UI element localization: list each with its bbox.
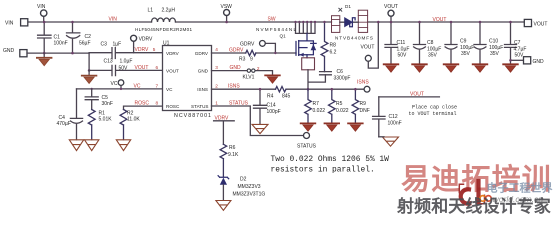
svg-text:ISNS: ISNS: [357, 79, 369, 85]
node dot VSW: [225, 21, 228, 24]
capacitor C8 (polarized): [414, 22, 426, 64]
svg-text:1µF: 1µF: [113, 41, 122, 47]
capacitor C3: [89, 48, 162, 59]
node dots comb: [294, 21, 296, 23]
testpoint ISNS: [364, 86, 370, 92]
resistor R6: [220, 144, 227, 177]
resistor R1: [88, 110, 95, 140]
svg-text:Two 0.022 Ohms 1206 5% 1W: Two 0.022 Ohms 1206 5% 1W: [271, 155, 390, 164]
capacitor C10 (polarized): [474, 22, 486, 64]
wire Q1 source to sense node: [308, 70, 325, 89]
svg-text:30nF: 30nF: [102, 101, 113, 107]
svg-text:D1: D1: [345, 4, 351, 9]
svg-text:ISNS: ISNS: [197, 87, 208, 92]
svg-text:Place cap close: Place cap close: [412, 105, 457, 111]
svg-text:STATUS: STATUS: [297, 143, 317, 149]
capacitor C14: [254, 89, 267, 124]
svg-text:U1: U1: [163, 41, 170, 47]
svg-text:C1: C1: [54, 35, 61, 41]
svg-text:C12: C12: [389, 114, 398, 120]
svg-text:1.0µF: 1.0µF: [120, 59, 133, 65]
wire GND rail corner down: [88, 53, 90, 70]
svg-text:VOUT: VOUT: [166, 69, 179, 74]
testpoint VIN: [43, 16, 45, 22]
svg-text:GND: GND: [533, 59, 545, 65]
svg-text:VOUT: VOUT: [410, 92, 424, 98]
node dot C11: [390, 21, 393, 24]
svg-text:ISNS: ISNS: [228, 84, 240, 90]
svg-text:100nF: 100nF: [388, 121, 402, 127]
wire VIN rail left: [28, 21, 152, 23]
svg-text:11.0K: 11.0K: [127, 117, 140, 123]
wire GND rail: [27, 52, 89, 54]
wire STATUS row pin1: [212, 106, 304, 136]
svg-text:3300pF: 3300pF: [334, 75, 351, 81]
svg-text:NCV887001: NCV887001: [174, 113, 211, 119]
ground under C12 (hollow): [383, 137, 399, 146]
wire VIN rail mid (SW net): [176, 21, 332, 23]
svg-text:0.022: 0.022: [313, 108, 326, 114]
capacitor C7: [505, 22, 517, 64]
svg-text:8: 8: [156, 101, 159, 106]
svg-text:VOUT: VOUT: [534, 21, 548, 27]
net label VOUT stub (red) with C12: [379, 96, 440, 98]
ground under C7 (filled): [503, 63, 518, 65]
svg-text:GND: GND: [230, 65, 242, 71]
svg-text:35V: 35V: [461, 51, 471, 57]
wire GDRV row pin4: [212, 52, 297, 54]
ground under R7 (filled): [301, 122, 316, 124]
svg-text:VOUT: VOUT: [384, 4, 398, 10]
svg-text:GND: GND: [3, 48, 15, 54]
svg-text:R4: R4: [267, 93, 274, 99]
svg-text:VC: VC: [166, 87, 173, 92]
svg-text:C8: C8: [427, 40, 434, 46]
svg-text:NVMF5844NL: NVMF5844NL: [256, 27, 296, 32]
svg-text:to VOUT terminal: to VOUT terminal: [409, 111, 457, 117]
svg-text:VDRV: VDRV: [215, 115, 229, 121]
wire GND row pin3: [212, 71, 273, 76]
ground under C3/C13 rail: [88, 70, 90, 75]
port VOUT: [524, 19, 531, 26]
testpoint VSW: [226, 15, 228, 22]
svg-text:470µF: 470µF: [57, 121, 71, 127]
svg-text:GND: GND: [198, 69, 209, 74]
svg-text:VOUT: VOUT: [433, 17, 447, 23]
svg-text:100µF: 100µF: [460, 45, 474, 51]
node dot R9: [354, 88, 357, 91]
svg-text:STATUS: STATUS: [229, 101, 249, 107]
svg-text:电子工程世界: 电子工程世界: [487, 181, 553, 195]
node dot GDRV tap: [274, 52, 276, 54]
ground under C14 (hollow): [252, 124, 268, 133]
svg-text:6: 6: [156, 65, 159, 70]
svg-text:100µF: 100µF: [489, 45, 503, 51]
svg-text:35V: 35V: [490, 51, 500, 57]
capacitor C1: [38, 22, 51, 53]
svg-text:VIN: VIN: [5, 20, 14, 26]
node dot Q1 source / R7: [307, 88, 310, 91]
svg-text:VOUT: VOUT: [135, 65, 149, 71]
node dot VOUT riser: [377, 21, 380, 24]
svg-text:C2: C2: [85, 34, 92, 40]
svg-text:ROSC: ROSC: [166, 104, 180, 109]
svg-text:56µF: 56µF: [79, 41, 91, 47]
node dot C7 top: [509, 21, 512, 24]
svg-text:1.0µF: 1.0µF: [397, 46, 410, 52]
svg-text:845: 845: [282, 93, 291, 99]
svg-text:VIN: VIN: [37, 4, 46, 10]
capacitor C2 (polarized): [67, 22, 80, 53]
wire VOUT rail right: [368, 21, 524, 23]
svg-text:C10: C10: [489, 39, 498, 45]
ground under R9 (filled): [348, 122, 363, 124]
svg-text:NTVB440MFS: NTVB440MFS: [335, 36, 373, 41]
connector KLV1: [247, 69, 250, 72]
svg-text:7: 7: [156, 83, 159, 88]
resistor R5: [328, 89, 335, 123]
svg-text:VDRV: VDRV: [139, 36, 153, 42]
ground under R5 (filled): [325, 122, 340, 124]
ground KLV1 (filled): [265, 74, 280, 76]
ground under C11 (filled): [384, 63, 399, 65]
resistor R8 (snubber): [321, 22, 328, 72]
node dot C13 gnd tee: [88, 69, 91, 72]
svg-text:射频和天线设计专家: 射频和天线设计专家: [396, 196, 551, 216]
svg-text:GDRV: GDRV: [240, 42, 255, 48]
svg-text:C14: C14: [267, 103, 276, 109]
svg-text:VDRV: VDRV: [135, 47, 149, 53]
svg-text:6.2: 6.2: [330, 50, 337, 56]
svg-text:C11: C11: [397, 40, 406, 46]
testpoint STATUS: [304, 133, 310, 139]
ground under D2 (hollow): [216, 201, 231, 211]
ground under C8 (filled): [412, 63, 427, 65]
diode D2 zener MM3Z3V3: [218, 176, 229, 179]
watermark www.eeworld.com.cn: [480, 196, 486, 202]
svg-text:C6: C6: [337, 69, 344, 75]
svg-text:100µF: 100µF: [427, 46, 441, 52]
testpoint VOUT (top): [390, 16, 392, 22]
svg-text:50V: 50V: [119, 66, 129, 72]
svg-text:MM3Z3V3: MM3Z3V3: [238, 184, 261, 190]
svg-text:C7: C7: [514, 40, 521, 46]
svg-text:4: 4: [215, 47, 218, 52]
capacitor C11: [385, 22, 397, 64]
wire to GND port: [511, 59, 524, 61]
node dot VC tp: [120, 88, 122, 90]
svg-text:0.022: 0.022: [336, 108, 349, 114]
ground under R1 (hollow): [85, 140, 99, 151]
capacitor C12: [373, 97, 385, 137]
svg-text:Q1: Q1: [280, 34, 287, 39]
svg-text:C9: C9: [460, 39, 467, 45]
ground under R2 (hollow): [116, 140, 130, 151]
svg-text:GDRV: GDRV: [195, 51, 209, 56]
svg-text:4.7µF: 4.7µF: [514, 46, 527, 52]
ground under C9 (filled): [444, 63, 459, 65]
node dot C8: [418, 21, 421, 24]
node dot GND/C1: [43, 52, 46, 55]
svg-text:R8: R8: [330, 43, 337, 49]
wire ISNS row pin2: [212, 88, 365, 90]
node dot C1 top: [43, 21, 46, 24]
resistor R7: [305, 89, 312, 123]
inductor L1: [152, 18, 176, 22]
svg-text:3: 3: [215, 65, 218, 70]
capacitor C13: [89, 65, 162, 75]
capacitor C6 (snubber): [320, 72, 332, 75]
watermark eeworld logo d: [459, 181, 484, 204]
svg-text:R1: R1: [99, 111, 106, 117]
svg-text:5.01K: 5.01K: [99, 117, 113, 123]
ground under C4 (hollow): [69, 140, 83, 151]
node dot C10: [479, 21, 482, 24]
port GND (right): [524, 57, 531, 64]
Q1 package drain comb: [296, 22, 316, 33]
svg-text:R7: R7: [313, 101, 320, 107]
wire VC row: [77, 88, 163, 90]
svg-text:50V: 50V: [398, 53, 408, 59]
svg-text:VC: VC: [111, 81, 118, 87]
svg-text:MM3Z3V3T1G: MM3Z3V3T1G: [233, 192, 266, 198]
Q1 source package outline: [302, 58, 315, 70]
svg-text:100pF: 100pF: [267, 109, 281, 115]
resistor R4: [276, 87, 287, 92]
svg-text:1: 1: [215, 100, 218, 105]
node dot R8 top: [323, 21, 325, 23]
svg-text:2: 2: [257, 66, 260, 71]
svg-text:2.2µH: 2.2µH: [162, 8, 176, 14]
svg-text:L1: L1: [148, 8, 154, 14]
svg-text:KLV1: KLV1: [243, 74, 255, 80]
svg-text:VC: VC: [134, 83, 141, 89]
node dot C2 top: [71, 21, 74, 24]
svg-text:VIN: VIN: [109, 16, 118, 22]
testpoint VC: [120, 85, 122, 89]
svg-text:2: 2: [215, 83, 218, 88]
node dot R5: [331, 88, 334, 91]
svg-text:D2: D2: [240, 176, 247, 182]
svg-text:GDRV: GDRV: [229, 47, 244, 53]
svg-text:SW: SW: [268, 17, 276, 23]
svg-text:STATUS: STATUS: [191, 104, 208, 109]
svg-text:VOUT: VOUT: [361, 45, 375, 51]
node dot C14: [259, 88, 262, 91]
svg-text:50V: 50V: [515, 53, 525, 59]
svg-text:VSW: VSW: [221, 4, 233, 10]
node dot GND branch: [509, 59, 512, 62]
resistor R2: [120, 110, 127, 140]
svg-text:9.1K: 9.1K: [228, 152, 239, 158]
node dot GND/C2: [71, 52, 74, 55]
net label VDRV stub (red): [214, 121, 235, 145]
svg-text:resistors in parallel.: resistors in parallel.: [271, 166, 375, 175]
capacitor C4 (polarized): [70, 89, 82, 140]
svg-text:R2: R2: [127, 111, 134, 117]
svg-text:C3: C3: [101, 41, 108, 47]
svg-text:R3: R3: [239, 57, 246, 63]
svg-text:C13: C13: [104, 59, 113, 65]
port GND: [20, 50, 27, 57]
svg-text:DNF: DNF: [360, 108, 370, 114]
svg-text:35V: 35V: [428, 53, 438, 59]
svg-text:VDRV: VDRV: [166, 51, 180, 56]
svg-text:R5: R5: [336, 101, 343, 107]
svg-text:R9: R9: [360, 101, 367, 107]
svg-text:HLF5045NFDER2R2M01: HLF5045NFDER2R2M01: [135, 27, 192, 32]
svg-text:9: 9: [250, 57, 253, 63]
testpoint VOUT (below D1): [365, 55, 371, 61]
svg-text:5: 5: [153, 47, 156, 52]
port VIN: [21, 19, 28, 26]
capacitor C5: [85, 89, 98, 110]
testpoint VDRV: [133, 41, 135, 52]
capacitor C9 (polarized): [445, 22, 457, 64]
node dot C9: [450, 21, 453, 24]
wire ROSC row: [124, 106, 163, 109]
svg-text:100nF: 100nF: [54, 41, 68, 47]
ground under C10 (filled): [473, 63, 488, 65]
svg-text:R6: R6: [229, 145, 236, 151]
resistor R9: [352, 89, 359, 123]
svg-text:ROSC: ROSC: [135, 101, 150, 107]
resistor R3: [246, 50, 256, 55]
ground under C1 (filled): [43, 53, 45, 58]
testpoint GDRV: [265, 43, 275, 53]
op-amp U1 (NCV887001 controller): [163, 46, 212, 111]
node dot C5 branch: [91, 88, 93, 90]
